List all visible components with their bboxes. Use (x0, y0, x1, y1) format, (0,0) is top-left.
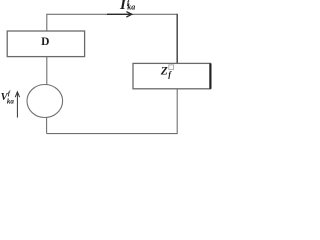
wire: top rail down to Zf top (176, 14, 178, 64)
svg-text:I: I (119, 0, 127, 13)
svg-text:Z: Z (160, 65, 168, 77)
missing-glyph box (superscript of Z) (169, 65, 174, 70)
block Zf (133, 63, 210, 88)
voltage source (27, 85, 63, 118)
wire: source to bottom rail (46, 117, 48, 133)
label V_ka^f (1, 90, 15, 105)
label I_ka^f (119, 0, 135, 13)
block Zf right edge (dark) (209, 63, 211, 88)
voltage arrow (15, 92, 19, 118)
svg-text:ka: ka (7, 97, 14, 105)
svg-text:ka: ka (127, 2, 135, 11)
wire: Zf bottom to bottom rail (176, 89, 178, 134)
label Z_f (160, 65, 172, 79)
wire: top rail (46, 13, 177, 15)
wire: D top to top rail (46, 14, 48, 31)
current arrow (107, 12, 132, 17)
svg-text:D: D (41, 36, 49, 48)
svg-text:f: f (8, 90, 11, 97)
wire: bottom rail (47, 133, 178, 135)
wire: D bottom to source (46, 57, 48, 85)
block D (7, 31, 84, 57)
